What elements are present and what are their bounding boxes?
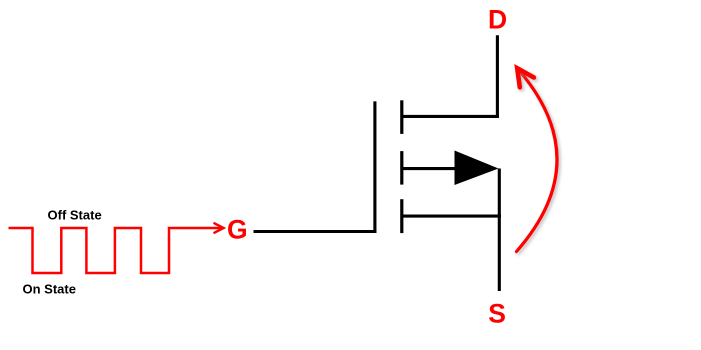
wire source horizontal [402,215,501,218]
svg-text:D: D [488,5,507,35]
channel bar bottom (source side) [400,199,403,233]
gate electrode bar [373,101,376,233]
wire drain vertical to D [496,35,499,118]
gate drive square wave [9,228,222,273]
current direction arc S to D [517,69,558,252]
wire drain horizontal [402,115,499,118]
svg-text:G: G [227,215,248,245]
body arrow (points to channel tie) [455,151,499,186]
svg-text:Off State: Off State [48,207,102,222]
wire G to gate electrode [254,230,377,233]
current arc arrowhead [517,68,534,87]
arrowhead toward G [214,223,224,233]
svg-text:S: S [488,299,506,329]
wire source vertical to S [498,169,501,292]
wire body to source [402,167,456,170]
channel bar top (drain side) [400,100,403,134]
svg-text:On State: On State [23,281,76,296]
channel bar middle (body) [400,151,403,185]
